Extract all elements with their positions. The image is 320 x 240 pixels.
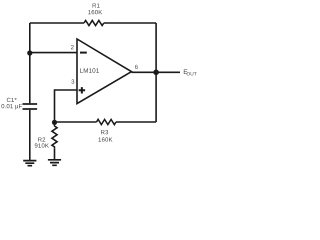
wire: left vertical upper (node A to C1) — [29, 23, 31, 103]
pin number 6 — [135, 65, 138, 69]
resistor R1 — [84, 20, 104, 25]
label R1 — [93, 3, 100, 7]
label LM101 — [80, 68, 99, 72]
node A junction dot — [27, 50, 32, 55]
ground symbol (below R2) — [48, 160, 61, 166]
wire: output (pin 6 to Eout) — [132, 71, 181, 73]
capacitor C1 bottom plate — [23, 108, 38, 110]
wire: right vertical — [155, 23, 157, 122]
value label 160K (R3) — [99, 137, 113, 141]
wire: R2 to ground stem — [54, 149, 56, 159]
value label 0.01 uF — [1, 104, 22, 109]
ground symbol (below C1) — [23, 161, 36, 166]
label C1* — [7, 98, 17, 102]
wire: non-inverting input (pin 3) — [55, 90, 77, 122]
wire: left vertical lower (C1 to ground) — [29, 110, 31, 160]
net label EOUT subscript — [187, 72, 197, 75]
node B junction dot — [52, 120, 57, 125]
resistor R2 — [52, 124, 57, 149]
node C output junction dot — [153, 70, 159, 76]
label R3 — [101, 130, 108, 134]
value label 910K (R2) — [35, 143, 49, 147]
wire: inverting input (pin 2) — [30, 52, 77, 54]
capacitor C1 top plate — [23, 103, 38, 105]
resistor R3 — [97, 119, 116, 124]
minus tick (inverting input) — [80, 52, 87, 54]
label R2 — [38, 137, 45, 141]
wire: bottom, left segment — [55, 121, 97, 123]
op-amp U1 LM101 — [77, 39, 132, 104]
wire: top feedback, left segment — [30, 22, 84, 24]
wire: bottom, right segment — [116, 121, 156, 123]
pin number 2 — [71, 45, 74, 49]
plus tick (non-inverting input) — [79, 87, 86, 93]
net label EOUT — [184, 70, 188, 74]
pin number 3 — [71, 79, 74, 83]
wire: top feedback, right segment — [104, 22, 156, 24]
value label 160K (R1) — [88, 10, 102, 14]
